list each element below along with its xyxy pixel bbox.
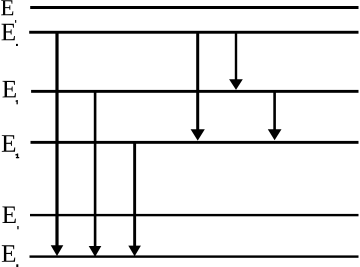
transition arrow E5 to E4 head [229, 79, 243, 90]
transition arrow E5 to E1 head [51, 245, 64, 256]
transition arrow E5 to E4 shaft [235, 31, 237, 81]
transition arrow E5 to E3 head [191, 129, 205, 140]
level line E1 [30, 255, 359, 257]
transition arrow E4 to E1 head [89, 246, 102, 257]
level line E5 [29, 31, 358, 34]
label E1 subscript [16, 264, 18, 267]
level line E3 [31, 141, 359, 144]
level line E6 [30, 6, 358, 9]
label E5 subscript [16, 44, 18, 46]
transition arrow E4 to E3 head [268, 129, 282, 140]
transition arrow E5 to E1 shaft [55, 31, 58, 246]
label E2 [2, 207, 15, 223]
transition arrow E3 to E1 head [128, 246, 141, 257]
transition arrow E4 to E3 shaft [273, 90, 276, 131]
label E4 [2, 81, 15, 97]
level line E2 [30, 214, 359, 216]
transition arrow E5 to E3 shaft [196, 31, 199, 131]
label E6 subscript [15, 20, 16, 23]
label E6 [1, 0, 13, 15]
label E1 [2, 245, 15, 261]
label E3 subscript [17, 154, 18, 159]
label E2 subscript [17, 226, 18, 229]
label E5 [1, 24, 14, 40]
level line E4 [31, 90, 358, 93]
label E3 [2, 135, 15, 151]
transition arrow E4 to E1 shaft [94, 90, 97, 247]
transition arrow E3 to E1 shaft [133, 141, 136, 247]
label E4 subscript [17, 100, 18, 104]
